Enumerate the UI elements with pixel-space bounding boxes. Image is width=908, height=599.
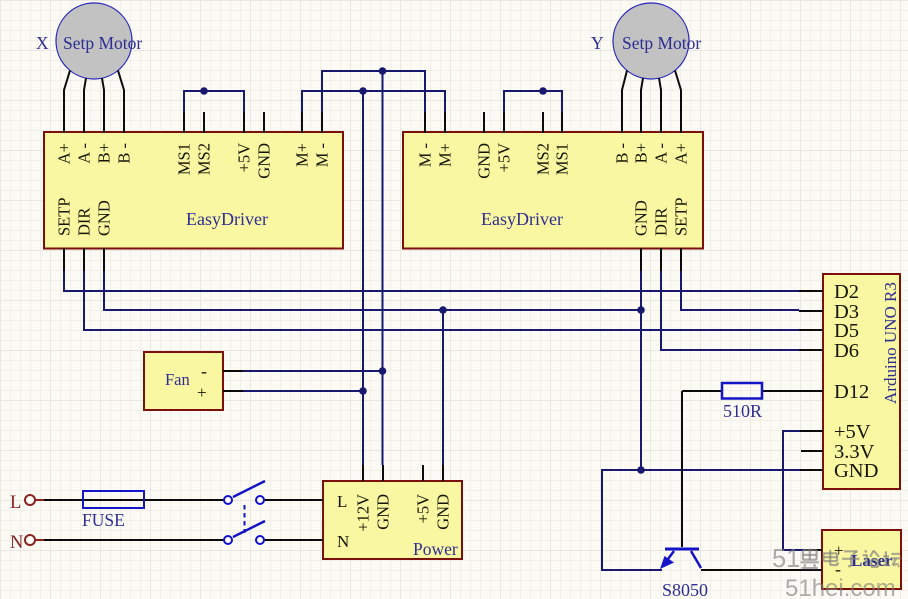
svg-text:+5V: +5V bbox=[414, 494, 433, 524]
svg-text:N: N bbox=[10, 533, 23, 553]
svg-text:Setp Motor: Setp Motor bbox=[63, 33, 142, 53]
svg-text:A -: A - bbox=[75, 143, 94, 164]
svg-text:GND: GND bbox=[95, 200, 114, 236]
svg-text:M+: M+ bbox=[436, 143, 455, 167]
svg-text:SETP: SETP bbox=[672, 197, 691, 236]
svg-text:B -: B - bbox=[115, 143, 134, 164]
svg-text:510R: 510R bbox=[723, 401, 762, 421]
svg-text:X: X bbox=[36, 33, 49, 53]
svg-text:Arduino UNO R3: Arduino UNO R3 bbox=[881, 282, 900, 404]
svg-text:B+: B+ bbox=[95, 143, 114, 163]
svg-text:N: N bbox=[337, 532, 349, 551]
svg-text:GND: GND bbox=[255, 143, 274, 179]
svg-text:A -: A - bbox=[652, 143, 671, 164]
svg-text:L: L bbox=[10, 493, 21, 513]
svg-text:Y: Y bbox=[591, 33, 604, 53]
svg-text:FUSE: FUSE bbox=[82, 510, 125, 530]
svg-text:A+: A+ bbox=[55, 143, 74, 164]
svg-text:EasyDriver: EasyDriver bbox=[186, 209, 268, 229]
svg-text:Setp Motor: Setp Motor bbox=[622, 33, 701, 53]
svg-text:MS1: MS1 bbox=[553, 143, 572, 175]
svg-text:MS1: MS1 bbox=[175, 143, 194, 175]
svg-text:+5V: +5V bbox=[235, 143, 254, 173]
svg-text:Power: Power bbox=[413, 539, 458, 559]
svg-text:GND: GND bbox=[374, 494, 393, 530]
svg-text:M+: M+ bbox=[293, 143, 312, 167]
svg-text:GND: GND bbox=[434, 494, 453, 530]
svg-text:A+: A+ bbox=[672, 143, 691, 164]
svg-text:+12V: +12V bbox=[354, 494, 373, 532]
svg-text:+5V: +5V bbox=[495, 143, 514, 173]
svg-text:M -: M - bbox=[313, 143, 332, 167]
svg-text:SETP: SETP bbox=[55, 197, 74, 236]
svg-text:GND: GND bbox=[834, 460, 878, 482]
svg-text:L: L bbox=[337, 492, 347, 511]
svg-text:+5V: +5V bbox=[834, 421, 871, 443]
svg-text:B -: B - bbox=[613, 143, 632, 164]
svg-text:D5: D5 bbox=[834, 320, 859, 342]
svg-text:MS2: MS2 bbox=[195, 143, 214, 175]
svg-text:DIR: DIR bbox=[652, 208, 671, 236]
svg-text:S8050: S8050 bbox=[662, 580, 708, 599]
svg-text:B+: B+ bbox=[632, 143, 651, 163]
svg-text:MS2: MS2 bbox=[534, 143, 553, 175]
svg-text:D12: D12 bbox=[834, 381, 869, 403]
svg-text:51: 51 bbox=[772, 545, 800, 573]
svg-text:51hei.com: 51hei.com bbox=[785, 575, 896, 599]
svg-text:M -: M - bbox=[416, 143, 435, 167]
svg-text:Fan: Fan bbox=[165, 370, 190, 389]
svg-text:+: + bbox=[197, 383, 207, 402]
svg-text:EasyDriver: EasyDriver bbox=[481, 209, 563, 229]
svg-text:D2: D2 bbox=[834, 281, 859, 303]
svg-text:GND: GND bbox=[475, 143, 494, 179]
svg-text:GND: GND bbox=[632, 200, 651, 236]
svg-text:D6: D6 bbox=[834, 340, 859, 362]
svg-text:-: - bbox=[201, 361, 207, 381]
svg-text:DIR: DIR bbox=[75, 208, 94, 236]
